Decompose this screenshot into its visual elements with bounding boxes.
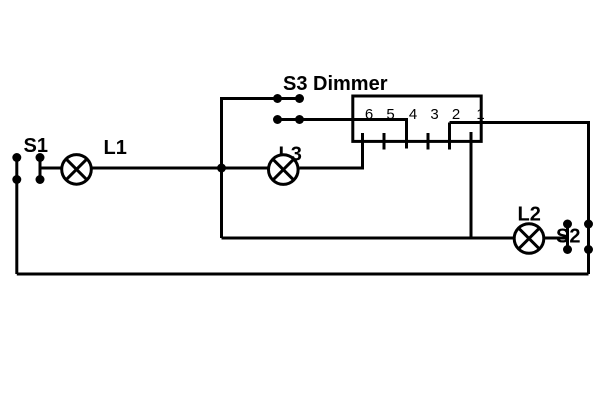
svg-text:S1: S1 — [24, 135, 48, 157]
svg-text:6: 6 — [365, 106, 373, 123]
svg-text:2: 2 — [452, 106, 460, 123]
wire: pin 3 lead — [427, 133, 430, 150]
wire: vertical from S3 top row down to L2 wire corner — [220, 99, 223, 239]
switch S1 contact dots — [12, 153, 21, 162]
svg-text:S3 Dimmer: S3 Dimmer — [283, 73, 388, 95]
dimmer box U1 — [353, 96, 481, 141]
lamp L2 — [514, 224, 544, 254]
wire: L3 right to pin 6 corner — [300, 167, 363, 170]
wire: L2 horizontal from left vertical to S2 — [222, 237, 568, 240]
wire: right rail down through S2 to bottom rail — [587, 121, 590, 274]
wire: pin 1 lead down to L2 wire — [470, 132, 473, 238]
switch S2 contact dots — [563, 220, 572, 229]
wire: bottom rail — [17, 273, 589, 276]
svg-text:4: 4 — [409, 106, 417, 123]
lamp L3 — [269, 155, 299, 185]
wire: S3 upper contact bar — [278, 97, 300, 100]
switch S3 contact dots — [273, 94, 282, 103]
wire: pin 5 lead — [383, 133, 386, 150]
wire: S3 lower contact bar and run to pin 4 — [278, 118, 407, 121]
switch S1 contact bar — [39, 158, 42, 180]
svg-text:S2: S2 — [556, 226, 580, 248]
svg-text:L2: L2 — [518, 204, 541, 226]
svg-text:L1: L1 — [104, 137, 127, 159]
wire: S1 to L1 to junction to L3 (main horizontal) — [40, 167, 269, 170]
wire: pin 4 lead — [405, 118, 408, 149]
wire: pin 2 to right rail — [450, 121, 589, 124]
wire: pin 2 lead — [448, 123, 451, 150]
wire: top horizontal to S3 upper contact — [220, 97, 278, 100]
wire: left rail from S1 down to bottom rail — [15, 158, 18, 275]
junction node at L1/L3/vertical — [217, 164, 226, 173]
wire: pin 6 lead down to L3 wire — [361, 133, 364, 170]
svg-text:5: 5 — [386, 106, 394, 123]
svg-text:3: 3 — [430, 106, 438, 123]
switch S2 contact bar — [566, 224, 569, 250]
lamp L1 — [62, 155, 92, 185]
